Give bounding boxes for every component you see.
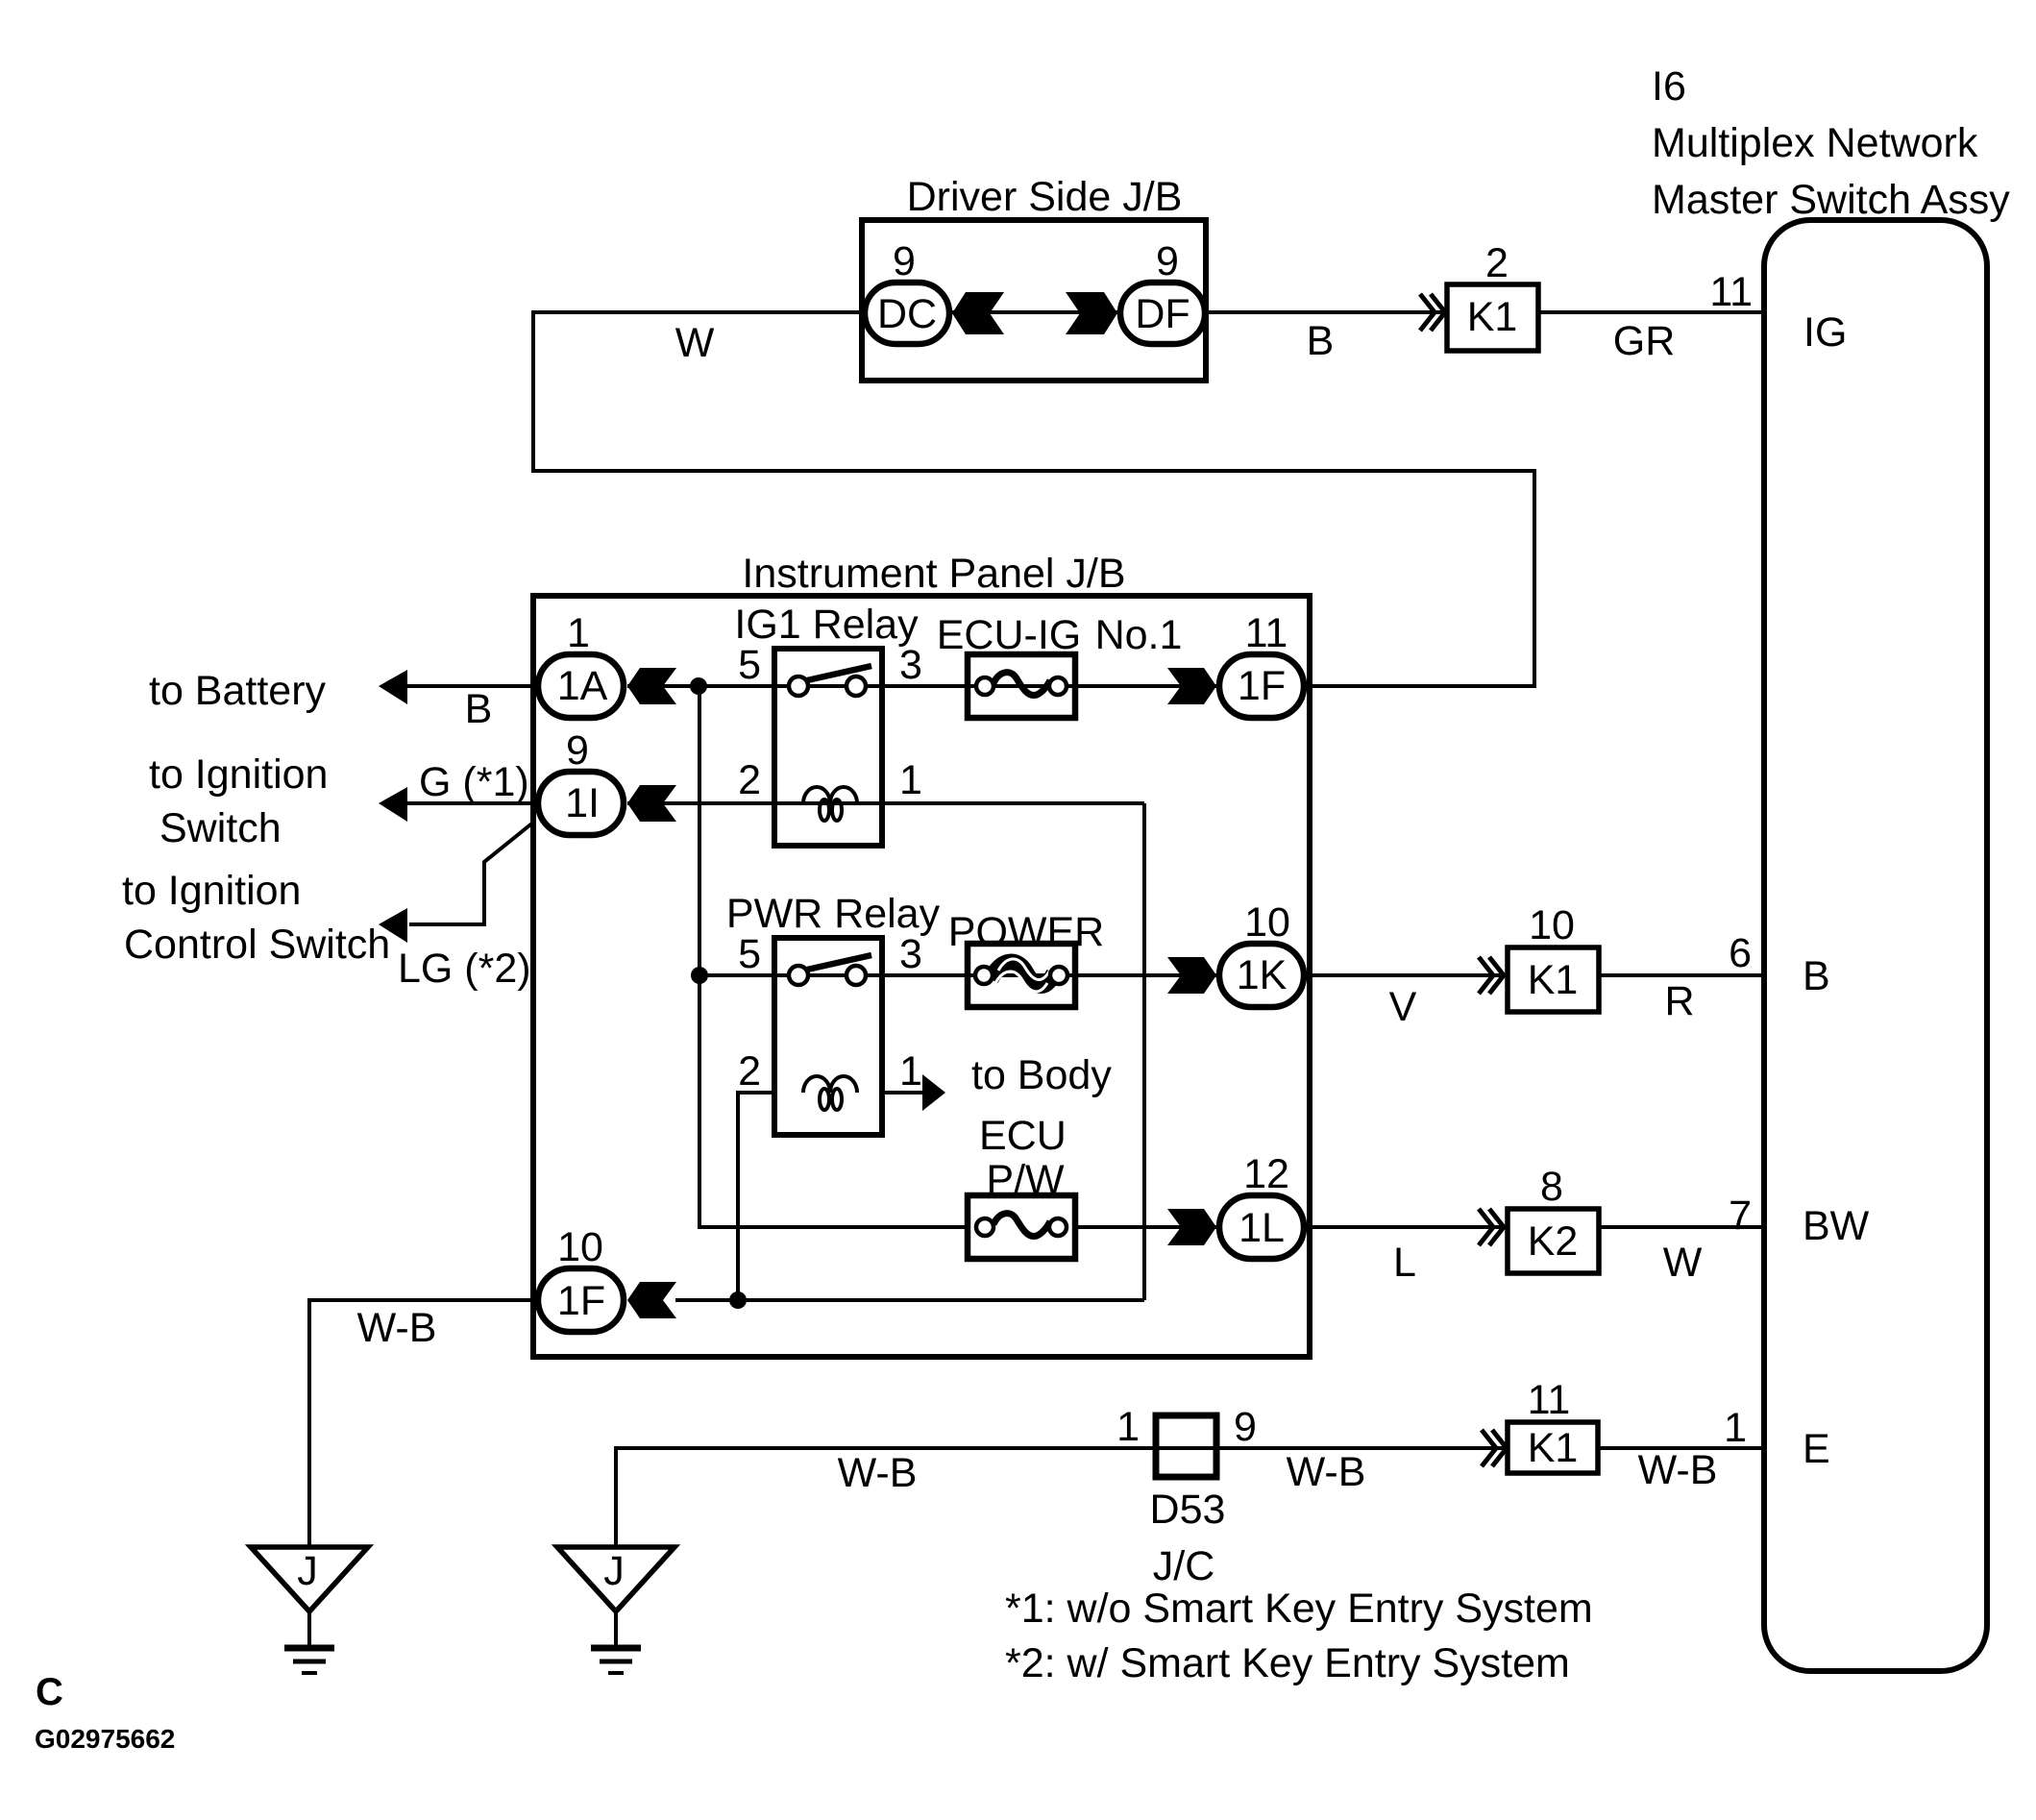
IG1 relay switch blade <box>807 666 871 680</box>
wire LG to ignition control switch from 1I <box>409 822 534 924</box>
svg-text:11: 11 <box>1528 1377 1571 1423</box>
wire to Battery from 1A <box>405 684 537 688</box>
svg-text:3: 3 <box>899 642 922 688</box>
fuse ECU P/W box <box>968 1195 1075 1259</box>
PWR relay switch contacts <box>789 966 808 985</box>
svg-text:W-B: W-B <box>1638 1447 1718 1493</box>
svg-text:K2: K2 <box>1528 1218 1579 1265</box>
wire PWR coil pin 2 drop to bottom run <box>738 1093 774 1300</box>
wire B: DF to K1 <box>1208 310 1444 314</box>
connector 1F pin 11 <box>1219 654 1304 718</box>
connector K1 mid <box>1508 947 1599 1012</box>
wire riser from IG1 coil pin 1 down <box>1142 803 1146 1300</box>
connector 1A <box>538 654 624 718</box>
Driver Side J/B box <box>862 220 1206 381</box>
fuse POWER fusible link element <box>991 962 1054 985</box>
svg-text:10: 10 <box>1244 899 1290 946</box>
svg-text:1F: 1F <box>1238 663 1286 709</box>
junction connector D53 <box>1156 1415 1216 1477</box>
junction dot at 1A branch <box>690 677 707 695</box>
svg-text:Switch: Switch <box>159 805 282 851</box>
to Battery arrowhead <box>379 670 407 704</box>
connector 1F pin 10 <box>538 1268 624 1332</box>
svg-text:2: 2 <box>1485 240 1509 286</box>
wire K2 to master switch pin 7 <box>1600 1225 1767 1229</box>
wire K1 mid to master switch pin 6 <box>1600 973 1767 977</box>
svg-text:K1: K1 <box>1528 1425 1579 1471</box>
to Ignition Control Switch arrowhead <box>379 908 407 943</box>
connector DC <box>865 283 949 344</box>
wire ground2 up and right to D53 <box>616 1448 1507 1547</box>
svg-text:Master Switch Assy: Master Switch Assy <box>1652 177 2010 223</box>
arrow at 1A <box>627 668 676 704</box>
svg-text:G02975662: G02975662 <box>35 1724 175 1754</box>
svg-text:7: 7 <box>1729 1193 1752 1239</box>
svg-text:LG (*2): LG (*2) <box>398 946 531 992</box>
svg-text:W: W <box>675 320 715 366</box>
junction dot on bottom 1F run <box>729 1291 747 1309</box>
svg-text:10: 10 <box>557 1224 603 1270</box>
chevrons into K1 mid <box>1479 957 1504 994</box>
svg-text:5: 5 <box>738 642 761 688</box>
svg-text:B: B <box>465 686 493 732</box>
svg-text:B: B <box>1307 318 1335 364</box>
fuse ECU P/W element <box>993 1214 1050 1237</box>
connector K2 <box>1508 1209 1599 1273</box>
svg-text:1A: 1A <box>557 663 608 709</box>
svg-text:1: 1 <box>1724 1405 1747 1451</box>
svg-text:I6: I6 <box>1652 63 1686 110</box>
IG1 relay coil <box>803 787 857 803</box>
svg-text:E: E <box>1803 1426 1830 1472</box>
svg-text:G (*1): G (*1) <box>419 759 529 805</box>
wire riser from 1A junction to PWR relay and P/W fuse <box>699 686 965 1227</box>
svg-text:L: L <box>1393 1240 1416 1286</box>
svg-text:to Ignition: to Ignition <box>122 868 301 914</box>
svg-text:1: 1 <box>567 610 590 656</box>
svg-text:9: 9 <box>893 238 916 284</box>
fuse ECU-IG element <box>993 673 1050 696</box>
svg-text:W: W <box>1663 1240 1703 1286</box>
svg-text:No.1: No.1 <box>1095 612 1183 658</box>
connector K1 bottom <box>1508 1422 1598 1473</box>
svg-text:9: 9 <box>1234 1404 1257 1450</box>
svg-text:GR: GR <box>1613 318 1676 364</box>
svg-text:V: V <box>1389 984 1417 1030</box>
svg-text:DF: DF <box>1135 291 1190 337</box>
wire bottom 1F(10) run <box>675 1298 1144 1302</box>
junction dot at PWR relay pin 5 branch <box>691 967 708 984</box>
PWR relay coil <box>803 1076 857 1093</box>
svg-text:Driver Side J/B: Driver Side J/B <box>907 174 1183 220</box>
svg-text:1: 1 <box>899 1048 922 1094</box>
wire PWR relay switch to POWER fuse to 1K <box>774 973 1216 977</box>
wire P/W fuse to 1L <box>1078 1225 1216 1229</box>
svg-text:2: 2 <box>738 1048 761 1094</box>
svg-text:6: 6 <box>1729 930 1752 976</box>
svg-text:1I: 1I <box>565 780 600 826</box>
svg-text:11: 11 <box>1245 610 1288 656</box>
svg-text:W-B: W-B <box>1287 1449 1366 1495</box>
svg-text:Multiplex Network: Multiplex Network <box>1652 120 1978 166</box>
connector 1L <box>1219 1195 1304 1259</box>
svg-text:J/C: J/C <box>1153 1543 1215 1589</box>
svg-text:3: 3 <box>899 931 922 977</box>
svg-text:ECU: ECU <box>979 1113 1067 1159</box>
connector K1 top <box>1447 284 1538 351</box>
arrow at 1F(10) <box>627 1282 676 1318</box>
svg-text:2: 2 <box>738 757 761 803</box>
svg-text:*1: w/o Smart Key Entry System: *1: w/o Smart Key Entry System <box>1005 1586 1593 1632</box>
svg-text:B: B <box>1803 953 1830 999</box>
ground J mid <box>557 1547 675 1611</box>
arrow into 1L <box>1167 1209 1216 1245</box>
arrow into 1F(11) <box>1167 668 1216 704</box>
svg-text:1L: 1L <box>1239 1205 1285 1251</box>
PWR relay box <box>774 938 882 1135</box>
svg-text:*2: w/ Smart Key Entry System: *2: w/ Smart Key Entry System <box>1005 1640 1570 1686</box>
svg-text:J: J <box>603 1548 625 1594</box>
svg-text:9: 9 <box>566 727 589 774</box>
svg-text:5: 5 <box>738 931 761 977</box>
wire GR: K1 to master switch pin 11 <box>1539 310 1767 314</box>
connector 1K <box>1219 944 1304 1007</box>
svg-text:W-B: W-B <box>838 1450 918 1496</box>
connector DF <box>1120 283 1205 344</box>
wire 1K to K2 connector mid <box>1307 973 1507 977</box>
PWR relay switch blade <box>807 955 871 970</box>
wire 1A to IG1 relay pin 5 to ECU-IG fuse to 1F(11) <box>627 684 1216 688</box>
IG1 relay switch contacts <box>789 676 808 696</box>
to Ignition Switch arrowhead <box>379 787 407 822</box>
connector 1I <box>538 772 624 835</box>
svg-text:1: 1 <box>1116 1404 1140 1450</box>
svg-text:IG1 Relay: IG1 Relay <box>734 602 919 648</box>
to Body ECU arrowhead <box>922 1074 945 1111</box>
svg-text:IG: IG <box>1803 309 1847 356</box>
arrow at 1I <box>627 785 676 822</box>
svg-text:to Body: to Body <box>971 1052 1112 1098</box>
svg-text:K1: K1 <box>1528 957 1579 1003</box>
wire W-B from 1F(10) to left ground <box>309 1300 537 1547</box>
svg-text:DC: DC <box>877 291 937 337</box>
arrow into 1K <box>1167 957 1216 994</box>
svg-text:1F: 1F <box>557 1278 605 1324</box>
svg-text:1K: 1K <box>1237 952 1288 998</box>
svg-text:9: 9 <box>1156 238 1179 284</box>
wire to Ignition Switch from 1I <box>405 801 537 805</box>
svg-text:BW: BW <box>1803 1203 1870 1249</box>
chevrons into K1 top <box>1420 294 1445 331</box>
svg-text:10: 10 <box>1529 902 1575 948</box>
wire PWR relay pin5 branch <box>699 973 774 977</box>
svg-text:PWR Relay: PWR Relay <box>726 891 941 937</box>
wire W: from 1F(11) right through top loop to DC <box>533 312 1534 686</box>
wire 1I to IG1 relay coil pin 2 and pin 1 run <box>627 801 1144 805</box>
svg-text:to Battery: to Battery <box>149 668 327 714</box>
svg-text:11: 11 <box>1709 269 1753 315</box>
svg-text:Instrument Panel J/B: Instrument Panel J/B <box>742 551 1125 597</box>
svg-text:W-B: W-B <box>357 1305 437 1351</box>
ground J left <box>251 1547 368 1611</box>
arrow into DC <box>952 292 1004 334</box>
wire K1 bottom to master switch pin 1 (E) <box>1600 1446 1767 1450</box>
svg-text:12: 12 <box>1243 1151 1289 1197</box>
wire between DC and DF arrows <box>952 310 1117 314</box>
fuse ECU-IG box <box>968 654 1075 718</box>
arrow into DF <box>1066 292 1117 334</box>
svg-text:J: J <box>297 1548 318 1594</box>
svg-text:C: C <box>36 1671 63 1713</box>
fuse POWER box <box>968 944 1075 1007</box>
chevrons into K1 bottom <box>1482 1430 1507 1466</box>
Instrument Panel J/B box <box>533 596 1310 1357</box>
svg-text:D53: D53 <box>1150 1487 1226 1533</box>
svg-text:R: R <box>1664 978 1694 1024</box>
svg-text:POWER: POWER <box>948 909 1104 955</box>
wire PWR coil pin 1 to body ECU arrow <box>884 1091 924 1094</box>
svg-text:to Ignition: to Ignition <box>149 751 328 798</box>
svg-text:Control Switch: Control Switch <box>124 922 390 968</box>
svg-text:K1: K1 <box>1467 294 1518 340</box>
svg-text:8: 8 <box>1540 1164 1563 1210</box>
chevrons into K2 <box>1479 1209 1504 1245</box>
IG1 relay box <box>774 649 882 846</box>
wire 1L to K2 <box>1307 1225 1507 1229</box>
multiplex network master switch assy body <box>1764 220 1987 1671</box>
svg-text:1: 1 <box>899 757 922 803</box>
